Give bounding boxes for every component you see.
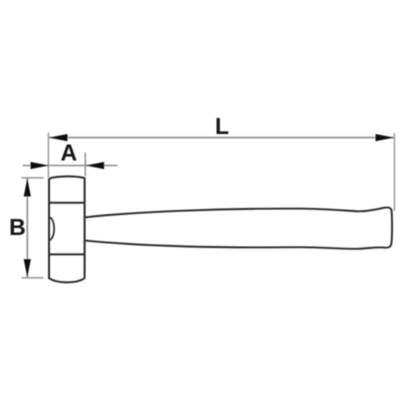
node arrowhead A right [86, 162, 104, 169]
wire: witness tick top of B [22, 177, 44, 179]
svg-text:A: A [60, 140, 77, 166]
node arrowhead L left [49, 134, 68, 141]
wire: extension line right of A [84, 153, 86, 177]
node arrowhead B top [24, 178, 31, 196]
wire: extension line right of L [393, 133, 395, 211]
wire: head divider upper [49, 202, 85, 204]
wire: extension line left (shared by L and A) [47, 133, 49, 178]
node hammer head outline [49, 176, 85, 282]
node arrowhead B bottom [24, 259, 31, 277]
svg-text:L: L [215, 113, 229, 139]
node arrowhead A left [31, 162, 49, 169]
node arrowhead L right [376, 134, 395, 141]
node eye arc on head left edge [49, 217, 54, 240]
wire: head divider lower [49, 253, 85, 255]
wire: dimension line L [49, 137, 394, 139]
wire: dimension line B [26, 179, 28, 278]
svg-text:B: B [9, 214, 26, 240]
node handle outline [85, 207, 392, 248]
wire: witness tick bottom of B [22, 277, 44, 279]
wire: dimension line A with outside tails [23, 165, 118, 167]
